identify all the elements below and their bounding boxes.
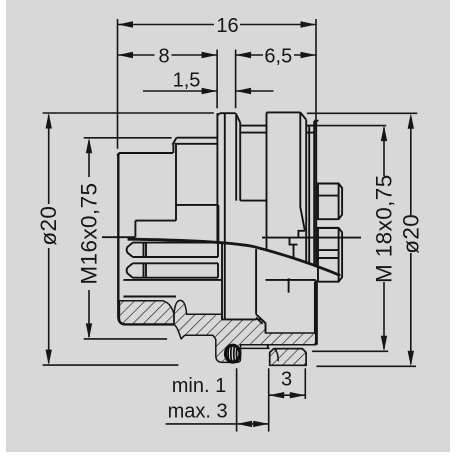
bell right edge [235, 113, 237, 200]
svg-text:M 18x0,75: M 18x0,75 [372, 174, 397, 283]
extension line y351.3 M18 bottom [312, 350, 388, 352]
pin 2 collar [144, 263, 147, 277]
hatched flange section [119, 301, 174, 325]
centerline right [262, 237, 361, 239]
arrow dim8 right [202, 52, 218, 58]
dimension texts [158, 15, 292, 423]
arrow dim3 right [290, 392, 306, 398]
arrow dim8 left [118, 52, 134, 58]
insert lower face line [123, 296, 176, 298]
arrow M18 top [381, 126, 387, 142]
arrow dim16 right [301, 21, 317, 27]
nut step [267, 345, 269, 349]
extension line y113 top [43, 112, 418, 114]
bell outer left wall [216, 113, 218, 243]
svg-text:3: 3 [281, 368, 292, 390]
dimension min/max line [166, 423, 269, 425]
pin 2 [127, 263, 218, 277]
svg-text:1,5: 1,5 [173, 69, 201, 91]
hex nut top [267, 111, 301, 113]
arrow dim1,5 right [236, 88, 252, 94]
svg-text:8: 8 [158, 45, 169, 67]
arrow M18 bottom [381, 336, 387, 352]
extension line y366.3 dia20 bottom right [316, 365, 416, 367]
dimension 3 line [269, 394, 306, 396]
set screw body [226, 345, 240, 362]
bell chamfer vertical [239, 123, 241, 201]
bell inner wall [224, 113, 226, 319]
right dia20 dimension line [410, 117, 412, 364]
chamfer edge lines [256, 314, 265, 324]
arrow dia20 right bottom [408, 351, 414, 367]
cavity W1 right edge [255, 249, 257, 314]
arrow dim3 left [269, 392, 285, 398]
rear shell top nub [314, 120, 318, 122]
rear cavity left lower edge [265, 323, 267, 333]
hex nut right chamfer [300, 112, 306, 119]
dimension 1,5 lines [143, 90, 274, 92]
hex nut left edge [266, 112, 268, 249]
extension line x216.2 [216, 50, 218, 109]
hatched nut section [270, 349, 306, 366]
rear nut flat 1 cap [338, 184, 340, 220]
arrow dia20 left bottom [46, 350, 52, 366]
extension line y137.8 M16 top [84, 137, 172, 139]
svg-text:ø20: ø20 [36, 206, 61, 246]
hex nut flat step lines [290, 231, 305, 259]
rear nut flat 1 inner line [318, 195, 339, 197]
hex nut right edge [305, 120, 307, 263]
bottom extension vertical x236.6 [236, 368, 238, 431]
pin 1 [127, 243, 218, 257]
extension line y365.1 dia20 bottom left [43, 364, 179, 366]
section break curve [128, 239, 341, 276]
rear cavity top line [266, 279, 316, 281]
dimension 6,5 line [236, 54, 316, 56]
arrowheads [46, 21, 414, 427]
arrow dim6,5 left [236, 52, 252, 58]
right M18 dimension line [383, 128, 385, 350]
rear nut flat boundary lines [318, 250, 339, 258]
arrow dim1,5 left [202, 88, 218, 94]
arrow dia20 left top [46, 113, 52, 129]
bell left chamfer [217, 113, 219, 115]
front cavity top [135, 220, 176, 222]
svg-text:M16x0,75: M16x0,75 [77, 183, 102, 285]
M16 thread left chamfer [172, 138, 176, 145]
left dia20 dimension line [48, 115, 50, 363]
section floor line left [123, 279, 221, 281]
hex nut chamfer lines [300, 112, 305, 230]
rear nut flat 1 [316, 184, 342, 220]
M16 thread root line [174, 143, 217, 145]
dimension 16 line [118, 24, 317, 26]
hatched rear shell section [174, 300, 316, 362]
front cavity left [134, 221, 136, 238]
extension line y338.9 M16 bottom [84, 338, 167, 340]
break curve [128, 239, 341, 276]
M18 thread root [240, 132, 314, 134]
rear thread right edge [308, 126, 310, 264]
nut fold arc [275, 349, 279, 361]
front bore shoulder [176, 204, 218, 206]
arrow minmax left [237, 421, 253, 427]
extension line x235.8 [235, 50, 237, 109]
bottom extension vertical x305.3 [304, 368, 306, 399]
cavity W1 left lower edge [221, 243, 223, 320]
bell top [220, 112, 236, 114]
bottom extension vertical x268.7 [268, 368, 270, 431]
front bore wall [175, 145, 177, 221]
arrow dim6,5 right [301, 52, 317, 58]
flange step to thread [172, 145, 174, 153]
svg-text:min. 1: min. 1 [172, 375, 226, 397]
extension line x117.5 [117, 19, 119, 149]
arrow dia20 right top [408, 113, 414, 129]
arrow minmax right [253, 421, 269, 427]
dimension 8 line [118, 54, 218, 56]
set screw slot hatching [228, 346, 237, 362]
rear shell lower back lines [315, 282, 317, 345]
set screw [226, 345, 240, 362]
shelf lower line [241, 347, 270, 349]
arrow M16 bottom [86, 323, 92, 339]
centerline left [102, 236, 135, 238]
flange left edge [117, 153, 174, 325]
pin 1 collar [144, 243, 147, 257]
M16 thread crest line [176, 137, 217, 139]
arrow dim16 left [118, 21, 134, 27]
M18 thread crest [240, 125, 314, 127]
rear insert edge [288, 278, 290, 292]
svg-text:6,5: 6,5 [264, 45, 292, 67]
rear shell back edge lines [314, 121, 316, 266]
extension line y125.6 M18 top [310, 125, 386, 127]
bell cavity shoulder [240, 200, 266, 202]
svg-text:16: 16 [216, 15, 238, 37]
bell right chamfer [236, 115, 240, 123]
svg-text:ø20: ø20 [398, 214, 423, 254]
cavity W1 bottom [222, 318, 256, 320]
rear nut block cap [338, 228, 340, 282]
bell outer inner line [217, 205, 219, 242]
left M16 dimension line [88, 141, 90, 337]
flange top edge [119, 152, 173, 154]
arrow M16 top [86, 138, 92, 154]
extension line x316 [315, 19, 317, 130]
rear cavity right edge [315, 280, 317, 333]
svg-text:max. 3: max. 3 [168, 400, 228, 422]
rear nut flats 2-3 block [316, 228, 342, 282]
